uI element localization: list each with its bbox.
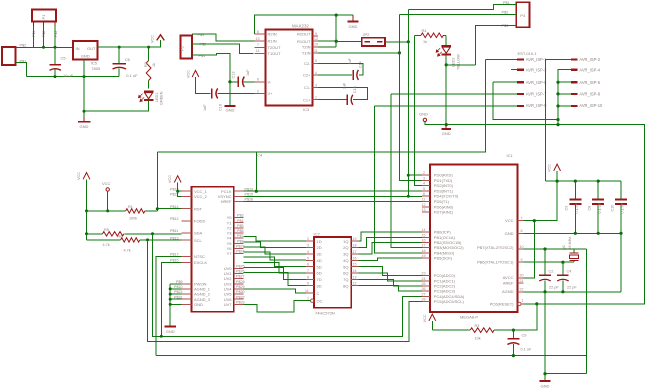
svg-text:NTSC: NTSC xyxy=(194,254,205,259)
svg-text:24: 24 xyxy=(422,277,426,281)
junction SDA wrap xyxy=(151,232,154,235)
svg-text:16: 16 xyxy=(422,239,426,243)
svg-text:22: 22 xyxy=(520,288,524,292)
wire RST vertical riser xyxy=(156,152,158,211)
svg-text:5Q: 5Q xyxy=(343,264,348,269)
svg-text:AGND: AGND xyxy=(502,289,514,294)
IC1 MEGA8-P microcontroller xyxy=(430,164,518,311)
junction R1 rail xyxy=(85,209,88,212)
svg-text:0.1 uF: 0.1 uF xyxy=(621,202,625,213)
junction SCL wrap xyxy=(146,238,149,241)
wire vertical RXD bus (P4 pin1/JP2 to IC1 PD0) xyxy=(408,9,422,196)
svg-text:1: 1 xyxy=(307,297,309,301)
svg-text:5D: 5D xyxy=(317,264,322,269)
svg-text:GND: GND xyxy=(81,54,90,59)
wire RESET node down to RC xyxy=(513,304,536,330)
wire 1Q to IC1 pin14 xyxy=(359,232,422,241)
wire R2IN loop to top rail xyxy=(255,15,354,34)
wire MOSI vertical to IC1 pin17 xyxy=(391,94,422,248)
svg-text:4Q: 4Q xyxy=(343,258,348,263)
capacitor C2 xyxy=(539,249,551,292)
wire bus UV1 to 7D xyxy=(244,268,307,280)
svg-text:74HC573N: 74HC573N xyxy=(315,311,335,316)
junction PD0 tee xyxy=(407,174,410,177)
crystal Q1 xyxy=(569,249,578,262)
svg-text:AVR_ISP-3: AVR_ISP-3 xyxy=(526,67,547,72)
pin stubs IC4 right xyxy=(234,191,244,304)
connector P3 (serial header) xyxy=(181,36,193,59)
svg-text:MEGA8-P: MEGA8-P xyxy=(460,315,478,320)
svg-text:23: 23 xyxy=(422,272,426,276)
svg-text:13: 13 xyxy=(353,275,357,279)
svg-text:VCC: VCC xyxy=(168,175,172,183)
wire bus UV0 to 6D xyxy=(244,262,307,273)
wire bus Y5 to 3D xyxy=(244,247,307,254)
svg-text:2: 2 xyxy=(423,171,425,175)
resistor R5 xyxy=(103,232,124,236)
svg-text:2Q: 2Q xyxy=(343,245,348,250)
junction ISP-8 xyxy=(556,92,559,95)
wire T2IN to tie xyxy=(318,46,336,48)
wire IC5 GND down to bottom rail and GND xyxy=(83,60,85,112)
wire C16 to MAX232 V+ xyxy=(218,92,255,94)
ground GND power section xyxy=(78,111,91,122)
svg-text:C9: C9 xyxy=(522,334,527,338)
svg-text:GND: GND xyxy=(166,329,175,334)
svg-text:1Q: 1Q xyxy=(343,239,348,244)
wire JP2 pin2 to vertical bus xyxy=(385,41,408,43)
svg-text:P$33: P$33 xyxy=(236,301,245,305)
junction bottom rail C5 xyxy=(54,75,57,78)
svg-text:IC2: IC2 xyxy=(314,231,321,236)
junction XTAL1 C4 xyxy=(561,261,564,264)
wire ISP-10 to tie xyxy=(558,105,571,107)
junction even-tie on GND wire xyxy=(556,123,559,126)
connector P1 (top power header) xyxy=(32,10,56,27)
junction RESET node xyxy=(535,302,538,305)
wire GND pin8 rail xyxy=(524,233,621,291)
svg-text:T2IN: T2IN xyxy=(302,44,311,49)
svg-text:8: 8 xyxy=(521,229,523,233)
svg-text:GND: GND xyxy=(505,231,514,236)
svg-text:17: 17 xyxy=(353,250,357,254)
wire 3Q to IC1 pin16 xyxy=(359,243,422,255)
svg-text:P$26: P$26 xyxy=(236,270,245,274)
svg-text:IC4: IC4 xyxy=(256,153,263,158)
svg-text:P$5: P$5 xyxy=(237,224,244,228)
svg-text:10: 10 xyxy=(520,245,524,249)
wire R4 left vertical down to IC1 PD2 xyxy=(415,35,422,185)
svg-text:C: C xyxy=(317,291,320,296)
wire RST to IC4 xyxy=(157,208,181,210)
wire ISP-2 VCC riser xyxy=(546,59,571,181)
svg-text:9: 9 xyxy=(315,32,317,36)
svg-text:GND: GND xyxy=(80,124,89,129)
svg-text:C10: C10 xyxy=(610,205,614,212)
capacitor C3 xyxy=(569,181,581,233)
pin stubs MAX232 left xyxy=(255,34,266,93)
LED2 yellow xyxy=(436,35,451,56)
connector P4 xyxy=(516,2,529,27)
svg-text:JP2: JP2 xyxy=(363,32,371,37)
svg-text:1k: 1k xyxy=(423,40,427,44)
svg-text:P$2: P$2 xyxy=(200,43,207,47)
junction VCC circle rail xyxy=(106,209,109,212)
svg-text:P$15: P$15 xyxy=(245,192,254,196)
wire P4 pin1 to RXD vertical xyxy=(408,5,516,10)
junction OUT rail R2 xyxy=(147,46,150,49)
svg-text:P$16: P$16 xyxy=(245,197,254,201)
svg-text:GND: GND xyxy=(419,112,428,117)
svg-text:1D: 1D xyxy=(317,239,322,244)
supply VCC arrow far left xyxy=(83,173,90,180)
wire P4 pin3 down to LED2 node xyxy=(475,26,516,65)
svg-text:AVR_ISP-2: AVR_ISP-2 xyxy=(579,57,600,62)
svg-text:P$23: P$23 xyxy=(236,245,245,249)
svg-text:VCC: VCC xyxy=(548,164,552,172)
svg-text:P1: P1 xyxy=(41,14,46,20)
svg-text:PC5(ADC5/SCL): PC5(ADC5/SCL) xyxy=(434,299,465,304)
svg-text:C1-: C1- xyxy=(304,85,311,90)
wire LED1 cathode to GND run xyxy=(84,101,149,112)
svg-text:IC3: IC3 xyxy=(303,107,310,112)
svg-text:AVR_ISP-9: AVR_ISP-9 xyxy=(526,103,547,108)
supply VCC top-left arrow xyxy=(157,35,165,41)
junction PCLK riser xyxy=(255,190,258,193)
pin AVR_ISP-7 xyxy=(517,93,524,95)
junction ISP-10 xyxy=(556,104,559,107)
wire PCLK riser to long run xyxy=(255,152,257,191)
wire ISP-5 riser down xyxy=(493,82,558,119)
wire LED2 node to P4 pin3 riser xyxy=(446,64,475,66)
svg-text:1k: 1k xyxy=(152,63,156,67)
svg-text:AVR_ISP-7: AVR_ISP-7 xyxy=(526,92,547,97)
wire RESET pin to node xyxy=(524,303,537,305)
connector P2 (left power jack) xyxy=(2,47,16,65)
svg-text:P$27: P$27 xyxy=(236,275,245,279)
wire RST net long run xyxy=(157,59,485,152)
svg-text:1uF: 1uF xyxy=(348,58,352,65)
svg-text:VCC: VCC xyxy=(423,314,427,322)
wire SDA rail xyxy=(87,233,182,235)
svg-text:P$3: P$3 xyxy=(237,214,244,218)
svg-text:19: 19 xyxy=(353,237,357,241)
svg-text:2: 2 xyxy=(307,237,309,241)
pin AVR_ISP-2 xyxy=(571,58,578,60)
svg-text:21: 21 xyxy=(520,279,524,283)
svg-text:7: 7 xyxy=(257,43,259,47)
svg-text:V-: V- xyxy=(268,79,272,84)
svg-text:8Q: 8Q xyxy=(343,283,348,288)
supply VCC arrow at P3 xyxy=(192,70,199,77)
supply VCC arrow top-right xyxy=(554,164,561,171)
wire SCL rail xyxy=(87,239,182,241)
pin AVR_ISP-1 xyxy=(517,58,524,60)
junction top rail C5 xyxy=(54,46,57,49)
junction top rail pin2 xyxy=(42,46,45,49)
svg-text:C8: C8 xyxy=(588,206,592,211)
svg-text:9: 9 xyxy=(307,282,309,286)
svg-text:14: 14 xyxy=(353,269,357,273)
svg-text:R4: R4 xyxy=(422,29,427,33)
wire 5Q to IC1 pin23 xyxy=(359,267,422,276)
svg-text:19: 19 xyxy=(422,254,426,258)
svg-text:P3: P3 xyxy=(181,46,185,51)
wire VCC circle to R1 rail xyxy=(107,191,109,211)
svg-text:16: 16 xyxy=(353,256,357,260)
svg-text:15: 15 xyxy=(422,233,426,237)
wire GND net vertical to bottom xyxy=(544,292,546,374)
svg-text:4.7k: 4.7k xyxy=(103,243,110,247)
svg-text:8D: 8D xyxy=(317,283,322,288)
svg-text:12: 12 xyxy=(422,203,426,207)
svg-text:P$7: P$7 xyxy=(237,234,244,238)
capacitor C13 xyxy=(230,77,255,87)
svg-text:HREF: HREF xyxy=(221,199,232,204)
LED1 green xyxy=(138,91,153,101)
svg-text:7805: 7805 xyxy=(91,66,101,71)
wire PCLK long to IC1 pin5 xyxy=(244,190,422,192)
svg-text:0.1 uF: 0.1 uF xyxy=(126,73,138,78)
svg-text:13: 13 xyxy=(422,208,426,212)
wire AGND collector xyxy=(170,284,181,326)
svg-text:C4: C4 xyxy=(567,269,572,273)
svg-text:P$32: P$32 xyxy=(236,295,245,299)
pin stubs IC1 right xyxy=(518,221,524,292)
svg-text:FODD: FODD xyxy=(194,219,205,224)
svg-text:P$3: P$3 xyxy=(198,33,205,37)
svg-text:P$25: P$25 xyxy=(236,264,245,268)
pin OC bubble xyxy=(306,299,314,302)
wire MISO vertical to IC1 pin18 xyxy=(375,106,422,253)
svg-text:5: 5 xyxy=(423,187,425,191)
wire P3 pin1 down to C13/GND node xyxy=(192,53,230,93)
svg-text:VCC: VCC xyxy=(186,70,190,78)
svg-text:17: 17 xyxy=(422,244,426,248)
svg-text:VCC: VCC xyxy=(151,35,155,43)
ground bar IC4 xyxy=(165,325,176,327)
svg-text:T1OUT: T1OUT xyxy=(268,51,282,56)
svg-text:R2: R2 xyxy=(144,62,148,67)
svg-text:GREEN: GREEN xyxy=(160,91,164,105)
svg-text:AVCC: AVCC xyxy=(503,275,514,280)
junction C9 bottom on GND wrap xyxy=(512,354,515,357)
svg-text:25: 25 xyxy=(422,282,426,286)
junction rail C8 xyxy=(597,180,600,183)
wire VCC arrow stem to R3 xyxy=(431,321,433,330)
svg-text:EXCLK: EXCLK xyxy=(194,260,207,265)
junction GND run xyxy=(83,110,86,113)
svg-text:4: 4 xyxy=(307,250,309,254)
voltage regulator IC5 7805 xyxy=(73,41,98,60)
svg-text:4: 4 xyxy=(423,182,425,186)
pin AVR_ISP-10 xyxy=(571,105,578,107)
wire bus UV2 to 8D xyxy=(244,273,307,286)
svg-text:MAX232: MAX232 xyxy=(292,24,309,29)
wire EXCLK drop xyxy=(161,262,181,336)
svg-text:AVR_ISP-8: AVR_ISP-8 xyxy=(579,92,600,97)
wire VCC to C16 xyxy=(196,77,211,93)
pin RESET bubble xyxy=(518,302,524,305)
svg-text:22 pF: 22 pF xyxy=(549,285,559,289)
svg-text:P$4: P$4 xyxy=(237,219,244,223)
svg-text:0.1 uF: 0.1 uF xyxy=(575,202,579,213)
svg-text:P$11: P$11 xyxy=(170,229,178,233)
svg-text:11: 11 xyxy=(305,289,309,293)
svg-text:4D: 4D xyxy=(317,258,322,263)
svg-text:GND: GND xyxy=(541,384,550,388)
svg-text:R3: R3 xyxy=(475,324,480,328)
svg-text:3D: 3D xyxy=(317,252,322,257)
svg-text:C15: C15 xyxy=(353,86,357,93)
junction SDA rail xyxy=(85,232,88,235)
svg-text:P$30: P$30 xyxy=(236,290,245,294)
svg-text:P$6: P$6 xyxy=(237,229,244,233)
wire SCL wrap to IC1 pin28 xyxy=(148,240,422,342)
svg-text:12: 12 xyxy=(353,282,357,286)
capacitor C15 (C1-/C1+) xyxy=(318,88,368,105)
wire vertical TXD bus (P4 pin2/T1IN to IC1 PD1) xyxy=(399,15,422,181)
resistor R1 xyxy=(126,209,145,213)
wire GND long wrap bottom xyxy=(156,355,587,357)
svg-text:R1OUT: R1OUT xyxy=(297,39,311,44)
svg-text:10: 10 xyxy=(314,43,318,47)
wire LED2 cathode down xyxy=(445,55,447,125)
resistor R2 xyxy=(146,47,151,88)
supply VCC arrow above IC4 xyxy=(174,176,181,183)
wire bus UV7 wrap to OC xyxy=(244,301,311,312)
svg-text:0.1 uF: 0.1 uF xyxy=(521,348,532,352)
wire ISP-6 to tie xyxy=(558,81,571,83)
junction ISP-6 xyxy=(556,81,559,84)
svg-text:LED1: LED1 xyxy=(155,93,159,103)
junction RST pin tee xyxy=(156,207,159,210)
svg-text:3: 3 xyxy=(315,84,317,88)
capacitor C4 xyxy=(557,262,569,292)
svg-text:100k: 100k xyxy=(129,216,137,220)
svg-text:2: 2 xyxy=(257,89,259,93)
svg-text:PB6(XTAL1/TOSC1): PB6(XTAL1/TOSC1) xyxy=(477,260,514,265)
svg-text:Y7: Y7 xyxy=(227,251,233,256)
svg-text:IC1: IC1 xyxy=(507,153,514,158)
svg-text:12: 12 xyxy=(314,37,318,41)
svg-text:0.1 uF: 0.1 uF xyxy=(598,202,602,213)
wire P1 pin2 down xyxy=(43,26,45,47)
junction rail C3 xyxy=(574,180,577,183)
resistor R4 xyxy=(415,33,447,38)
wire P2 pin1 to bottom rail xyxy=(16,63,27,77)
pin AVR_ISP-4 xyxy=(571,69,578,71)
wire VSYNC long to IC1 pin6 xyxy=(244,195,422,197)
svg-text:P$3: P$3 xyxy=(502,24,509,28)
svg-text:6D: 6D xyxy=(317,271,322,276)
svg-text:AVR_ISP-1: AVR_ISP-1 xyxy=(526,57,547,62)
wire ISP-1 from RST net riser xyxy=(485,58,517,60)
pin stubs IC4 left xyxy=(182,191,192,304)
svg-text:C16: C16 xyxy=(219,104,223,111)
resistor R3 xyxy=(432,328,513,333)
svg-text:1uF: 1uF xyxy=(246,69,250,76)
wire GND wrap corner to bar xyxy=(545,373,586,375)
wire XTAL2 wrap vertical xyxy=(585,249,587,374)
wire P1 pin1 down xyxy=(33,26,35,47)
op IC3 MAX232 xyxy=(266,30,313,106)
svg-text:1: 1 xyxy=(315,96,317,100)
svg-text:AVR_ISP-10: AVR_ISP-10 xyxy=(579,103,603,108)
capacitor C6 xyxy=(113,47,127,77)
svg-text:14: 14 xyxy=(422,228,426,232)
wire R1 rail xyxy=(87,210,158,212)
svg-text:PD7(AIN1): PD7(AIN1) xyxy=(434,209,454,214)
junction C13 tap xyxy=(228,80,231,83)
wire R1OUT to tie xyxy=(318,40,336,42)
svg-text:18: 18 xyxy=(353,244,357,248)
svg-text:7: 7 xyxy=(307,269,309,273)
wire top rail IN xyxy=(16,46,74,48)
junction VCC pins xyxy=(176,190,179,193)
svg-text:Q1: Q1 xyxy=(562,245,566,250)
svg-text:16 MHz: 16 MHz xyxy=(568,237,572,250)
wire AVCC riser xyxy=(524,221,535,278)
svg-text:AREF: AREF xyxy=(503,281,514,286)
svg-text:7: 7 xyxy=(521,217,523,221)
wire AGND rail pin22 xyxy=(524,291,621,293)
capacitor C16 xyxy=(212,88,218,98)
svg-text:3Q: 3Q xyxy=(343,252,348,257)
wire ISP-7 from MOSI elbow xyxy=(391,93,517,95)
svg-text:C1+: C1+ xyxy=(303,97,311,102)
junction C9 tap xyxy=(512,329,515,332)
wire GND rail to right edge wrap xyxy=(425,122,645,304)
svg-text:GND: GND xyxy=(194,302,203,307)
svg-text:VCC: VCC xyxy=(77,172,81,180)
svg-text:AVR_ISP-6: AVR_ISP-6 xyxy=(579,80,600,85)
svg-text:C3: C3 xyxy=(565,206,569,211)
svg-text:26: 26 xyxy=(422,287,426,291)
svg-text:11: 11 xyxy=(314,49,318,53)
svg-text:3: 3 xyxy=(423,176,425,180)
wire bus Y7 to 5D xyxy=(244,257,307,266)
junction EXCLK on SDA wrap xyxy=(160,335,163,338)
svg-text:R2OUT: R2OUT xyxy=(297,32,311,37)
svg-text:20: 20 xyxy=(520,274,524,278)
svg-text:C2-: C2- xyxy=(304,61,311,66)
svg-text:P$24: P$24 xyxy=(236,250,245,254)
svg-text:PB5(SCK): PB5(SCK) xyxy=(434,256,453,261)
wire 8Q to IC1 pin26 xyxy=(359,286,422,291)
wire vertical tie R1OUT/T2IN xyxy=(335,15,337,47)
IC4 camera interface box xyxy=(192,187,234,312)
junction tie R1OUT xyxy=(335,40,338,43)
svg-text:14: 14 xyxy=(256,49,260,53)
svg-text:UV7: UV7 xyxy=(224,302,233,307)
svg-text:PD2(INT0): PD2(INT0) xyxy=(434,183,454,188)
wire bus Y3 to 1D xyxy=(244,237,307,242)
svg-text:6: 6 xyxy=(423,192,425,196)
junction VSYNC tee xyxy=(407,195,410,198)
svg-text:PB7(XTAL2/TOSC2): PB7(XTAL2/TOSC2) xyxy=(477,245,514,250)
svg-text:R1IN: R1IN xyxy=(268,39,277,44)
svg-text:IN: IN xyxy=(76,46,80,51)
wire SDA wrap to IC1 pin27 xyxy=(153,234,422,336)
wire P1 pin3 down xyxy=(54,26,56,47)
svg-text:P$2: P$2 xyxy=(502,11,509,15)
wire P3 pin2 to MAX232 T1OUT xyxy=(192,44,254,54)
junction collector row5 xyxy=(169,303,172,306)
ground bar under LED2 xyxy=(441,125,451,130)
svg-text:1uF: 1uF xyxy=(343,82,347,89)
wire bus UV5 to C xyxy=(244,289,307,293)
